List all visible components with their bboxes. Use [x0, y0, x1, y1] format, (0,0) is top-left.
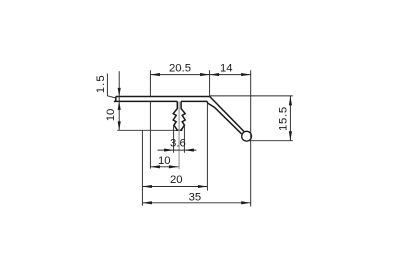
arrow 3.6 right (pointing left at ext) — [184, 149, 194, 152]
bead circle at leg tip — [242, 131, 252, 141]
arrow 20 right — [198, 185, 208, 188]
svg-text:10: 10 — [105, 109, 117, 122]
angled leg outer edge — [210, 97, 244, 132]
arrow 10b right — [169, 165, 179, 168]
barbed leg outline — [173, 101, 185, 130]
top dim line 20.5/14 — [150, 74, 250, 76]
arrow 20 left — [142, 185, 152, 188]
svg-text:15.5: 15.5 — [277, 106, 289, 131]
arrow 15.5 top (pointing up) — [289, 96, 292, 106]
angled leg inner edge — [207, 103, 241, 134]
1.5 leader line — [107, 74, 116, 99]
svg-text:20: 20 — [170, 174, 183, 186]
svg-text:1.5: 1.5 — [95, 74, 107, 93]
left dim vertical line (1.5 and 10) — [118, 71, 120, 130]
20 dim line — [142, 186, 207, 188]
15.5 bottom extension line — [249, 140, 293, 142]
arrow 20.5 right — [200, 73, 210, 76]
extension line from inner corner down to 20 dim — [206, 103, 208, 191]
10 bottom dim line — [150, 166, 178, 168]
arrow 3.6 left (pointing right at ext) — [164, 149, 174, 152]
svg-text:10: 10 — [158, 155, 171, 167]
arrow 20.5 left — [150, 73, 160, 76]
arrow 35 right — [241, 201, 251, 204]
35 dim line — [142, 202, 250, 204]
arrow 35 left — [142, 201, 152, 204]
3.6 dim line — [158, 149, 197, 151]
profile right inner face — [206, 101, 208, 103]
svg-text:3.6: 3.6 — [170, 137, 186, 149]
svg-text:35: 35 — [189, 191, 202, 203]
arrow 14 left — [210, 73, 220, 76]
svg-text:20.5: 20.5 — [169, 63, 191, 75]
extension line 20/35 left — [141, 130, 143, 205]
extension line at bar corner (above) — [209, 70, 211, 96]
arrow 15.5 bottom (pointing down) — [289, 131, 292, 141]
arrow 10 bottom (pointing down) — [118, 121, 121, 130]
profile bar bottom edge left of stem — [114, 100, 178, 102]
3.6 extension lines — [174, 125, 185, 153]
profile bar bottom edge right of stem — [181, 100, 207, 102]
extension line 20.5 left (above and below bar) — [149, 70, 151, 168]
barb center line — [178, 102, 180, 170]
profile bar left face — [115, 97, 117, 102]
extension line right (14/35 right) — [250, 70, 252, 206]
svg-text:14: 14 — [220, 62, 233, 74]
arrow at bar bottom (pointing up, 1.5/10 shared) — [118, 101, 121, 110]
profile bar top edge — [116, 96, 210, 98]
15.5 top extension line — [210, 95, 293, 97]
arrow 1.5 top (pointing down) — [118, 88, 121, 97]
arrow 10b left — [150, 165, 160, 168]
15.5 dim line — [289, 96, 291, 141]
arrow 14 right — [241, 73, 251, 76]
horizontal extension at barb tip level — [117, 129, 176, 131]
